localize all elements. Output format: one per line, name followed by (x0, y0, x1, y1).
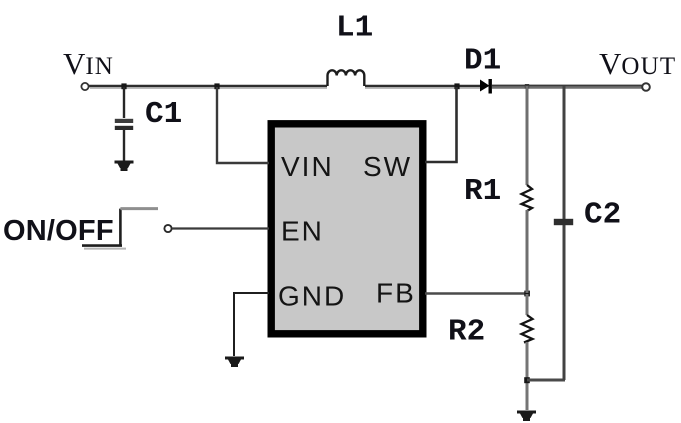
ground C1 (115, 161, 134, 172)
wire SW pin drop (425, 87, 457, 162)
wire inductor right to diode (365, 85, 481, 88)
junction R2-C2 bottom node (524, 377, 530, 383)
diode D1 (480, 80, 490, 92)
svg-text:ON/OFF: ON/OFF (3, 215, 114, 247)
svg-text:R2: R2 (448, 315, 485, 350)
wire VIN pin drop (217, 87, 269, 163)
wire top rail VIN to inductor (86, 85, 327, 88)
capacitor C1 (115, 119, 133, 123)
wire C2 branch (563, 86, 566, 380)
wire FB to divider (425, 292, 527, 295)
wire diode to VOUT (gray thick) (492, 85, 644, 89)
wire C1 branch (123, 87, 125, 118)
terminal EN (164, 225, 171, 232)
svg-text:C1: C1 (145, 97, 182, 132)
svg-text:FB: FB (376, 278, 416, 309)
svg-text:VIN: VIN (281, 151, 334, 182)
step waveform symbol (82, 209, 122, 246)
svg-text:L1: L1 (336, 11, 373, 46)
svg-text:GND: GND (278, 281, 346, 312)
svg-text:C2: C2 (584, 198, 621, 233)
wire EN (172, 227, 269, 229)
IC U1 body (271, 124, 423, 334)
wire R2 bottom (526, 342, 529, 410)
junction FB node (524, 291, 530, 297)
svg-text:D1: D1 (464, 44, 501, 79)
svg-text:SW: SW (363, 151, 412, 182)
terminal VIN (81, 83, 88, 90)
resistor R1 (522, 185, 533, 211)
terminal VOUT (642, 83, 650, 91)
ground GND pin (225, 357, 244, 368)
wire GND pin to ground (234, 293, 269, 356)
junction R1-rail (525, 84, 529, 89)
wire R1 top (526, 86, 529, 185)
inductor L1 (328, 70, 365, 86)
junction C1-rail (121, 83, 126, 89)
wire R2 top (526, 294, 529, 315)
ground output (517, 411, 536, 422)
wire C1 to ground (123, 130, 125, 161)
junction VIN-drop (214, 83, 219, 89)
capacitor C2 plate (554, 219, 573, 225)
svg-text:R1: R1 (464, 174, 501, 209)
wire bottom node to C2 (527, 379, 565, 382)
wire R1 bottom (526, 210, 529, 293)
resistor R2 (522, 315, 533, 343)
junction SW-drop (454, 83, 459, 89)
svg-text:EN: EN (281, 216, 324, 247)
